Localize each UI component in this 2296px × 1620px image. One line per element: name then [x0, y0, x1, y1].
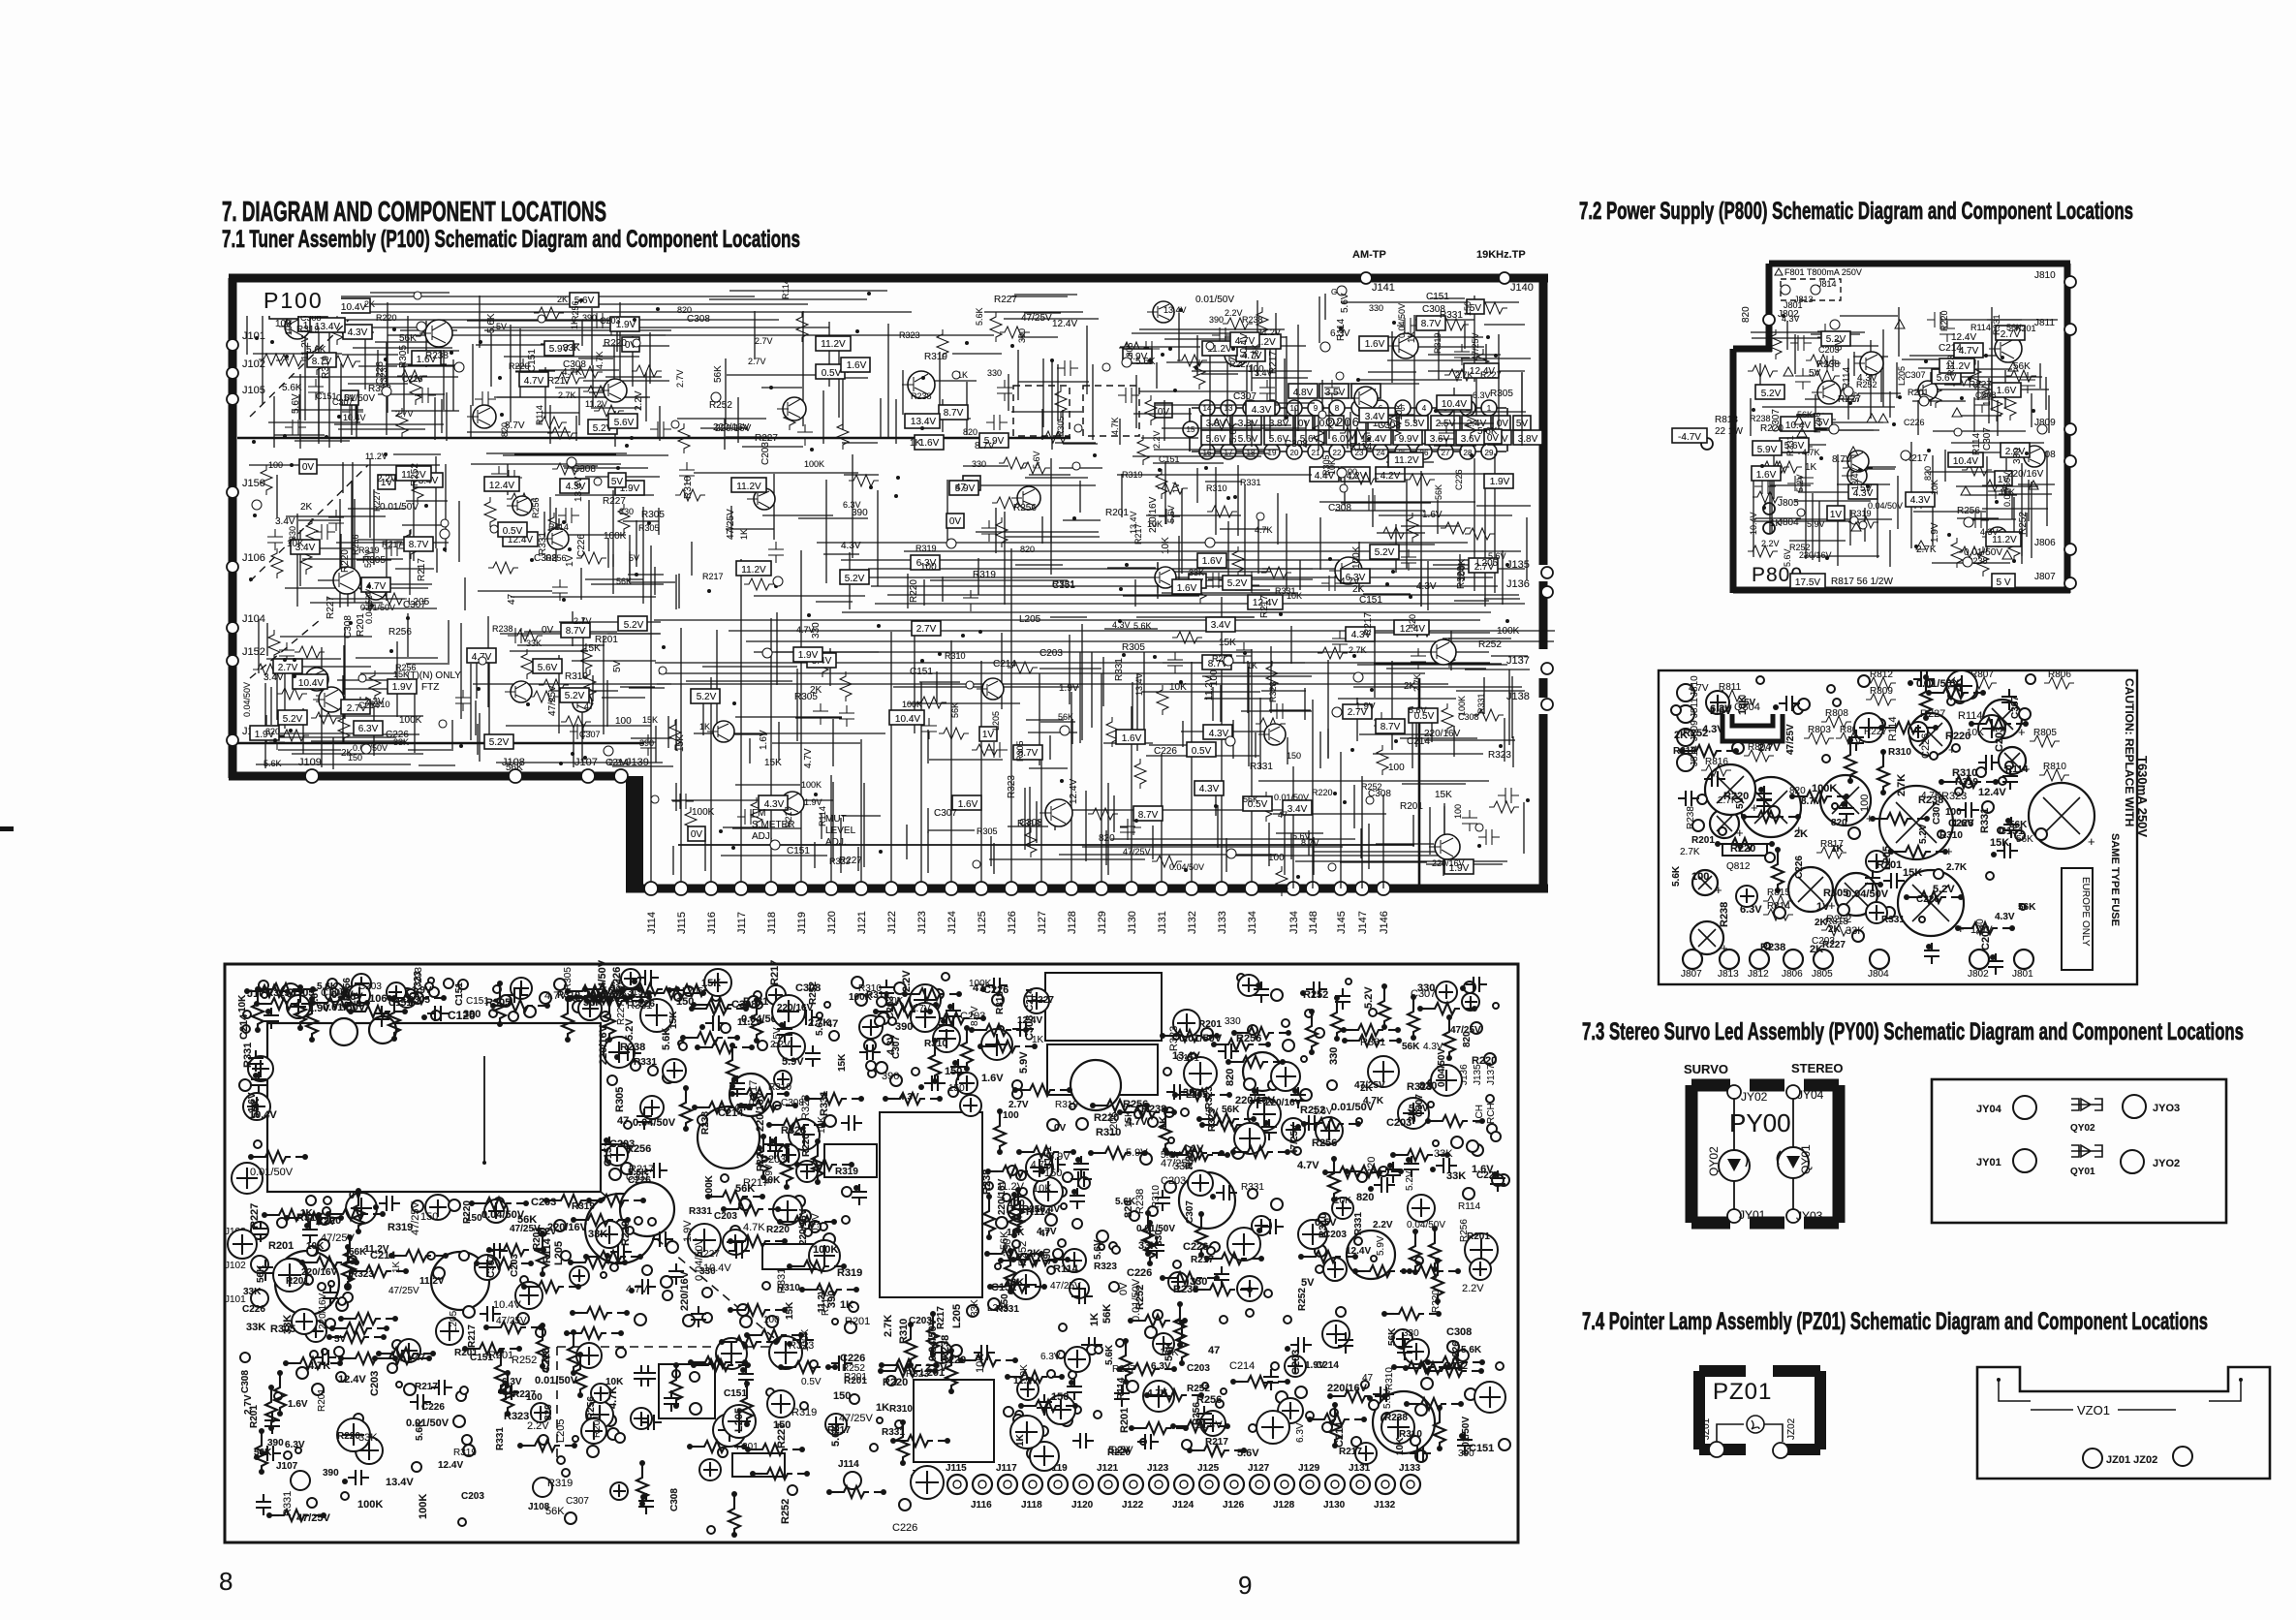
svg-text:2.2V: 2.2V [1462, 1283, 1484, 1294]
svg-text:C308: C308 [1446, 1326, 1472, 1338]
svg-text:C308: C308 [669, 1488, 680, 1511]
svg-text:100K: 100K [1812, 783, 1837, 794]
svg-text:C226: C226 [611, 967, 623, 992]
svg-text:33K: 33K [393, 737, 409, 747]
svg-text:C308: C308 [781, 1098, 804, 1108]
svg-text:100K: 100K [357, 1499, 383, 1511]
svg-text:56K: 56K [2018, 902, 2036, 913]
svg-text:100K: 100K [1457, 558, 1468, 581]
svg-text:R252: R252 [1303, 989, 1328, 1001]
svg-text:J140: J140 [1510, 282, 1534, 294]
svg-text:R310: R310 [945, 651, 966, 661]
svg-text:C203: C203 [1323, 1230, 1347, 1240]
svg-text:4.3V: 4.3V [1702, 724, 1724, 735]
svg-text:R319: R319 [835, 1167, 858, 1177]
svg-text:100K: 100K [704, 1174, 715, 1199]
svg-text:STEREO: STEREO [1791, 1061, 1843, 1075]
svg-text:56K: 56K [506, 763, 523, 773]
svg-text:5.6V: 5.6V [1032, 451, 1041, 469]
svg-text:1K: 1K [739, 529, 749, 540]
svg-text:R201: R201 [1198, 1019, 1222, 1030]
svg-text:R323: R323 [906, 1369, 929, 1380]
svg-text:R323: R323 [351, 1269, 374, 1280]
svg-text:47/25V: 47/25V [839, 1413, 874, 1424]
svg-text:390: 390 [895, 1021, 913, 1033]
svg-text:5.6V: 5.6V [614, 418, 635, 428]
svg-text:1.6V: 1.6V [919, 438, 940, 449]
svg-text:56K: 56K [1251, 344, 1260, 359]
svg-text:C151: C151 [1999, 826, 2024, 837]
svg-text:R201: R201 [1908, 388, 1929, 397]
svg-text:5.2V: 5.2V [1108, 1445, 1131, 1456]
svg-text:R227: R227 [994, 295, 1017, 305]
svg-text:R319: R319 [973, 570, 996, 580]
svg-text:R806: R806 [2048, 670, 2071, 680]
svg-text:C151: C151 [787, 846, 810, 857]
svg-text:R319: R319 [1433, 332, 1443, 354]
svg-text:R227: R227 [1112, 1364, 1135, 1375]
svg-text:56K: 56K [250, 1099, 262, 1118]
svg-text:12.4V: 12.4V [1069, 779, 1079, 804]
svg-text:5.6V: 5.6V [1237, 1448, 1259, 1459]
svg-text:+: + [1751, 800, 1758, 815]
svg-text:R319: R319 [547, 1478, 573, 1489]
svg-text:13.4V: 13.4V [911, 417, 936, 427]
svg-text:R238: R238 [1750, 414, 1771, 423]
svg-text:R201: R201 [592, 1415, 603, 1438]
svg-text:R319: R319 [572, 1201, 595, 1212]
svg-text:J804: J804 [1868, 969, 1889, 980]
svg-text:C307: C307 [486, 1255, 497, 1278]
svg-text:3.4V: 3.4V [264, 672, 284, 683]
svg-text:R256: R256 [1813, 412, 1822, 433]
svg-text:JZ01 JZ02: JZ01 JZ02 [2106, 1454, 2157, 1466]
svg-text:-4.7V: -4.7V [1678, 432, 1701, 443]
svg-text:10K: 10K [1334, 1196, 1351, 1206]
svg-text:R252: R252 [512, 1355, 537, 1366]
svg-text:390: 390 [267, 1438, 284, 1449]
svg-text:R201: R201 [1400, 801, 1423, 812]
svg-text:J114: J114 [838, 1459, 859, 1470]
svg-text:1K: 1K [840, 1299, 853, 1311]
svg-text:5.9V: 5.9V [1757, 445, 1778, 455]
svg-text:100: 100 [920, 562, 937, 573]
svg-text:R310: R310 [924, 1039, 947, 1049]
svg-text:J802: J802 [1968, 969, 1989, 980]
svg-text:R238: R238 [1686, 806, 1696, 829]
svg-text:C308: C308 [1019, 818, 1042, 828]
svg-text:100: 100 [1209, 670, 1220, 686]
svg-text:R323: R323 [1094, 1262, 1117, 1272]
svg-text:R217: R217 [769, 960, 781, 985]
svg-text:R201: R201 [317, 1388, 327, 1412]
svg-text:15K: 15K [1435, 790, 1452, 800]
svg-text:J126: J126 [1223, 1500, 1245, 1511]
svg-text:R114: R114 [535, 405, 544, 425]
svg-text:J115: J115 [946, 1463, 967, 1474]
svg-text:47/25V: 47/25V [1050, 1281, 1081, 1292]
svg-text:R238: R238 [1384, 1413, 1408, 1423]
svg-text:R252: R252 [842, 1363, 865, 1374]
svg-text:JY01: JY01 [1976, 1157, 2001, 1168]
svg-text:R114: R114 [2005, 764, 2029, 775]
svg-text:R331: R331 [689, 1206, 712, 1217]
svg-text:R305: R305 [563, 967, 574, 990]
svg-text:C203: C203 [369, 1371, 381, 1396]
svg-text:10K: 10K [975, 1354, 986, 1373]
svg-text:R227: R227 [1480, 370, 1502, 380]
svg-text:PY00: PY00 [1729, 1108, 1791, 1137]
svg-text:R331: R331 [1992, 314, 2001, 335]
svg-text:10.4V: 10.4V [298, 678, 324, 689]
svg-text:1.9V: 1.9V [1490, 477, 1510, 487]
svg-text:J805: J805 [1778, 498, 1799, 509]
svg-text:1.6V: 1.6V [1122, 733, 1142, 744]
svg-text:4.7V: 4.7V [1297, 1160, 1319, 1171]
svg-text:2.7V: 2.7V [395, 409, 414, 419]
svg-text:47: 47 [1278, 810, 1288, 820]
svg-text:R310: R310 [1673, 746, 1696, 757]
svg-text:R252: R252 [1789, 543, 1811, 552]
svg-text:15K: 15K [837, 1053, 848, 1072]
svg-text:C203: C203 [1187, 1363, 1210, 1374]
svg-text:2K: 2K [1828, 924, 1842, 935]
svg-text:9.9V: 9.9V [1399, 434, 1419, 445]
svg-text:5.2V: 5.2V [1375, 547, 1395, 558]
svg-text:0V: 0V [691, 829, 703, 840]
svg-text:0.01/50V: 0.01/50V [250, 1167, 294, 1178]
svg-text:R319: R319 [266, 988, 290, 999]
svg-text:100K: 100K [692, 807, 715, 818]
svg-text:47/25V: 47/25V [1289, 1124, 1300, 1155]
svg-text:C226: C226 [983, 984, 1008, 996]
svg-text:R331: R331 [1360, 1037, 1385, 1048]
svg-text:33K: 33K [243, 1287, 262, 1297]
svg-text:R238: R238 [700, 1111, 711, 1135]
svg-text:100K: 100K [902, 700, 922, 709]
svg-text:R305: R305 [398, 345, 409, 368]
svg-text:6.3V: 6.3V [1040, 1352, 1061, 1362]
svg-text:0.5V: 0.5V [772, 1027, 783, 1047]
svg-text:J124: J124 [946, 911, 958, 934]
svg-text:J152: J152 [242, 646, 265, 658]
svg-text:R217: R217 [1268, 351, 1279, 374]
svg-text:J133: J133 [1399, 1463, 1421, 1474]
svg-text:L205: L205 [553, 1241, 565, 1265]
svg-text:C151: C151 [1159, 454, 1180, 464]
svg-text:J102: J102 [242, 358, 265, 370]
svg-text:5.2V: 5.2V [697, 692, 717, 702]
svg-text:+: + [1715, 883, 1722, 897]
svg-text:12.4V: 12.4V [1195, 1419, 1223, 1431]
svg-text:1.9V: 1.9V [1305, 1360, 1325, 1371]
svg-text:4.7V: 4.7V [803, 748, 814, 768]
svg-text:5.9V: 5.9V [1018, 1051, 1030, 1074]
svg-text:12.4V: 12.4V [1052, 319, 1077, 329]
svg-text:6.3V: 6.3V [1710, 703, 1732, 715]
svg-text:G: G [1331, 288, 1337, 296]
svg-text:0.04/50V: 0.04/50V [633, 1117, 676, 1129]
svg-text:5.2V: 5.2V [283, 714, 303, 725]
svg-text:4.7K: 4.7K [1802, 448, 1820, 457]
svg-text:R220: R220 [604, 338, 627, 349]
svg-text:390: 390 [1183, 1087, 1200, 1099]
svg-text:10K: 10K [817, 1116, 827, 1134]
svg-text:C308: C308 [1285, 439, 1308, 450]
svg-text:47: 47 [507, 593, 517, 605]
svg-text:47/25V: 47/25V [1021, 313, 1052, 324]
svg-text:5 V: 5 V [1996, 577, 2010, 588]
svg-text:C203: C203 [1818, 345, 1840, 355]
svg-text:2.7K: 2.7K [1455, 370, 1474, 380]
svg-text:J119: J119 [796, 912, 808, 934]
svg-text:1K: 1K [1158, 1116, 1169, 1130]
svg-text:C226: C226 [541, 1348, 552, 1373]
svg-text:R220: R220 [1472, 1055, 1497, 1067]
svg-text:5.6V: 5.6V [538, 663, 558, 673]
svg-text:1.6V: 1.6V [958, 799, 978, 810]
svg-text:5.2V: 5.2V [1761, 389, 1782, 399]
svg-text:820: 820 [1225, 1069, 1236, 1086]
svg-text:J105: J105 [242, 385, 265, 396]
svg-text:1.9V: 1.9V [1059, 683, 1079, 694]
svg-text:390: 390 [1017, 328, 1027, 343]
svg-text:C151: C151 [724, 1388, 747, 1399]
svg-text:4.3V: 4.3V [899, 1092, 919, 1103]
svg-text:1K: 1K [391, 1261, 402, 1273]
svg-text:J127: J127 [1248, 1463, 1270, 1474]
svg-text:R201: R201 [1691, 835, 1715, 846]
svg-text:2.2V: 2.2V [901, 970, 913, 992]
svg-text:56K: 56K [399, 333, 417, 344]
svg-text:C307: C307 [1905, 370, 1926, 380]
svg-text:12.4V: 12.4V [1017, 1015, 1042, 1026]
svg-text:R310: R310 [1096, 1127, 1121, 1138]
svg-text:13.4V: 13.4V [1129, 511, 1138, 534]
svg-text:15K: 15K [1219, 638, 1236, 648]
svg-text:1K: 1K [699, 722, 710, 732]
svg-text:R220: R220 [509, 361, 530, 371]
svg-text:J137: J137 [1506, 655, 1530, 667]
svg-text:C203: C203 [510, 1254, 520, 1277]
svg-text:C226: C226 [1476, 1170, 1500, 1181]
svg-text:R305: R305 [1321, 454, 1331, 476]
svg-text:5.6K: 5.6K [282, 383, 302, 393]
svg-text:R220: R220 [376, 313, 397, 323]
svg-text:330: 330 [972, 459, 986, 469]
svg-text:47/25V: 47/25V [1450, 1025, 1481, 1036]
svg-text:1K: 1K [1770, 518, 1783, 529]
svg-text:220/16V: 220/16V [679, 1270, 691, 1311]
svg-text:820: 820 [1123, 1200, 1134, 1218]
svg-text:4.3V: 4.3V [1995, 912, 2015, 922]
svg-text:R812: R812 [1870, 670, 1893, 680]
svg-text:11.2V: 11.2V [419, 1276, 445, 1287]
svg-text:2K: 2K [810, 685, 822, 696]
svg-text:47/25V: 47/25V [510, 1224, 541, 1234]
svg-text:R305: R305 [641, 510, 665, 520]
svg-text:C226: C226 [1904, 418, 1925, 427]
svg-text:R310: R310 [683, 476, 694, 499]
svg-text:820: 820 [265, 727, 280, 736]
svg-text:SAME TYPE FUSE: SAME TYPE FUSE [2109, 833, 2121, 926]
svg-text:R319: R319 [837, 1267, 862, 1279]
svg-text:13.4V: 13.4V [1134, 672, 1144, 696]
svg-text:11.2V: 11.2V [1258, 327, 1281, 337]
svg-text:R331: R331 [819, 1091, 830, 1116]
svg-text:C308: C308 [240, 1370, 251, 1393]
svg-text:2.7K: 2.7K [558, 390, 576, 400]
svg-text:6.3V: 6.3V [1740, 904, 1762, 916]
svg-text:J106: J106 [242, 552, 265, 564]
svg-text:R227: R227 [249, 1203, 261, 1229]
svg-text:0V: 0V [349, 1190, 362, 1201]
svg-text:5.6K: 5.6K [1461, 1345, 1482, 1355]
svg-text:0.01/50V: 0.01/50V [406, 1417, 450, 1429]
svg-text:R238: R238 [492, 624, 513, 634]
svg-text:R227: R227 [326, 596, 336, 619]
svg-text:10.4V: 10.4V [1785, 421, 1811, 431]
svg-text:R305: R305 [485, 997, 511, 1009]
svg-text:R323: R323 [1488, 750, 1511, 761]
svg-text:5.2V: 5.2V [1405, 1170, 1415, 1191]
svg-text:220/16V: 220/16V [798, 1208, 809, 1245]
svg-text:R310: R310 [1384, 1367, 1395, 1390]
svg-text:C203: C203 [414, 967, 424, 990]
svg-text:390: 390 [852, 508, 868, 518]
svg-text:JZ02: JZ02 [1786, 1417, 1797, 1440]
svg-text:R220: R220 [337, 1431, 360, 1442]
svg-text:47: 47 [584, 701, 594, 711]
svg-text:1.6V: 1.6V [341, 991, 363, 1003]
svg-text:C308: C308 [795, 982, 821, 994]
svg-text:J128: J128 [1273, 1500, 1295, 1511]
svg-text:J115: J115 [676, 912, 688, 934]
svg-text:8.7V: 8.7V [1832, 454, 1852, 465]
svg-text:L205: L205 [951, 1304, 963, 1328]
svg-text:33K: 33K [246, 1322, 265, 1333]
svg-text:R114: R114 [1458, 1201, 1481, 1212]
svg-text:2.2V: 2.2V [634, 390, 644, 411]
svg-text:R808: R808 [1825, 708, 1848, 719]
svg-text:C226: C226 [1127, 1267, 1152, 1279]
svg-text:J147: J147 [1357, 911, 1369, 934]
svg-text:+: + [2088, 834, 2095, 849]
svg-text:R217: R217 [1205, 1437, 1228, 1448]
svg-text:J123: J123 [1147, 1463, 1169, 1474]
svg-text:100: 100 [1859, 794, 1871, 812]
svg-text:4.7V: 4.7V [626, 1284, 648, 1295]
svg-text:10.4V: 10.4V [341, 302, 366, 313]
svg-text:10K: 10K [1161, 537, 1171, 554]
svg-text:47: 47 [1362, 1373, 1374, 1384]
svg-text:2K: 2K [1027, 1248, 1040, 1260]
svg-text:4.2V: 4.2V [1381, 471, 1401, 482]
svg-text:29: 29 [1485, 449, 1494, 457]
svg-text:4.7V: 4.7V [524, 376, 544, 387]
svg-text:C151: C151 [1469, 1443, 1494, 1454]
svg-text:J811: J811 [1690, 698, 1700, 718]
svg-text:QY02: QY02 [2070, 1123, 2095, 1134]
svg-text:R331: R331 [242, 1043, 254, 1068]
svg-text:C226: C226 [892, 1522, 917, 1534]
svg-text:C308: C308 [687, 314, 710, 325]
svg-text:390: 390 [882, 1071, 899, 1082]
svg-text:1V: 1V [1830, 510, 1843, 520]
svg-text:C214: C214 [993, 659, 1016, 670]
svg-text:2.7K: 2.7K [883, 1315, 894, 1337]
svg-text:C226: C226 [1183, 1241, 1208, 1253]
svg-text:11.2V: 11.2V [1394, 455, 1419, 466]
svg-text:R220: R220 [340, 549, 351, 573]
svg-text:R310: R310 [889, 1404, 913, 1415]
svg-text:150: 150 [833, 1390, 851, 1402]
svg-text:R331: R331 [538, 532, 548, 555]
svg-text:1V: 1V [1191, 1143, 1204, 1155]
svg-text:J131: J131 [1157, 911, 1168, 934]
svg-text:J114: J114 [646, 912, 658, 934]
svg-text:R114: R114 [1887, 717, 1899, 741]
svg-text:R227: R227 [776, 1423, 788, 1449]
svg-text:J121: J121 [856, 911, 868, 934]
svg-text:R114: R114 [542, 1237, 553, 1263]
svg-text:5.6V: 5.6V [291, 393, 301, 414]
svg-text:220/16V: 220/16V [547, 1222, 588, 1233]
svg-text:R331: R331 [1785, 435, 1795, 456]
svg-text:R331: R331 [627, 1000, 652, 1012]
svg-text:J117: J117 [736, 912, 748, 934]
svg-text:C203: C203 [531, 1197, 556, 1208]
svg-text:MUT: MUT [825, 814, 847, 825]
svg-text:R217: R217 [547, 376, 571, 387]
svg-text:R220: R220 [1939, 310, 1949, 331]
svg-text:10.4V: 10.4V [1953, 456, 1978, 467]
svg-text:L205: L205 [991, 711, 1001, 731]
svg-text:2K: 2K [557, 295, 568, 304]
svg-text:10K: 10K [1287, 591, 1302, 601]
svg-text:J130: J130 [1127, 911, 1138, 934]
svg-text:56K: 56K [1387, 1327, 1398, 1346]
svg-text:R220: R220 [462, 1200, 473, 1224]
svg-text:0.04/50V: 0.04/50V [1868, 501, 1903, 511]
svg-text:C307: C307 [934, 808, 957, 819]
svg-text:0.01/50V: 0.01/50V [1274, 793, 1309, 802]
svg-text:56K: 56K [1434, 484, 1443, 500]
svg-text:R238: R238 [1719, 902, 1730, 927]
svg-text:JZ01: JZ01 [1701, 1417, 1712, 1440]
svg-text:R201: R201 [454, 1348, 478, 1358]
svg-text:10.4V: 10.4V [895, 714, 920, 725]
svg-text:4.3V: 4.3V [1209, 729, 1229, 739]
svg-text:100K: 100K [1497, 626, 1520, 637]
svg-text:47: 47 [415, 1353, 426, 1363]
svg-text:C226: C226 [840, 1353, 865, 1364]
svg-text:5.6V: 5.6V [1093, 1239, 1103, 1260]
svg-text:2K: 2K [364, 299, 375, 309]
svg-text:R252: R252 [1187, 1384, 1210, 1394]
svg-text:5.9V: 5.9V [1807, 519, 1825, 529]
svg-text:J146: J146 [1379, 911, 1390, 934]
svg-text:10K: 10K [287, 539, 304, 549]
svg-text:J129: J129 [1298, 1463, 1320, 1474]
svg-text:820: 820 [1020, 545, 1035, 554]
svg-text:1.6V: 1.6V [759, 730, 769, 750]
svg-text:15K: 15K [642, 715, 658, 725]
svg-text:220/16V: 220/16V [1327, 1383, 1368, 1394]
svg-text:R220: R220 [909, 579, 919, 603]
svg-text:R217: R217 [1191, 1255, 1214, 1265]
svg-text:R217: R217 [415, 1382, 438, 1392]
